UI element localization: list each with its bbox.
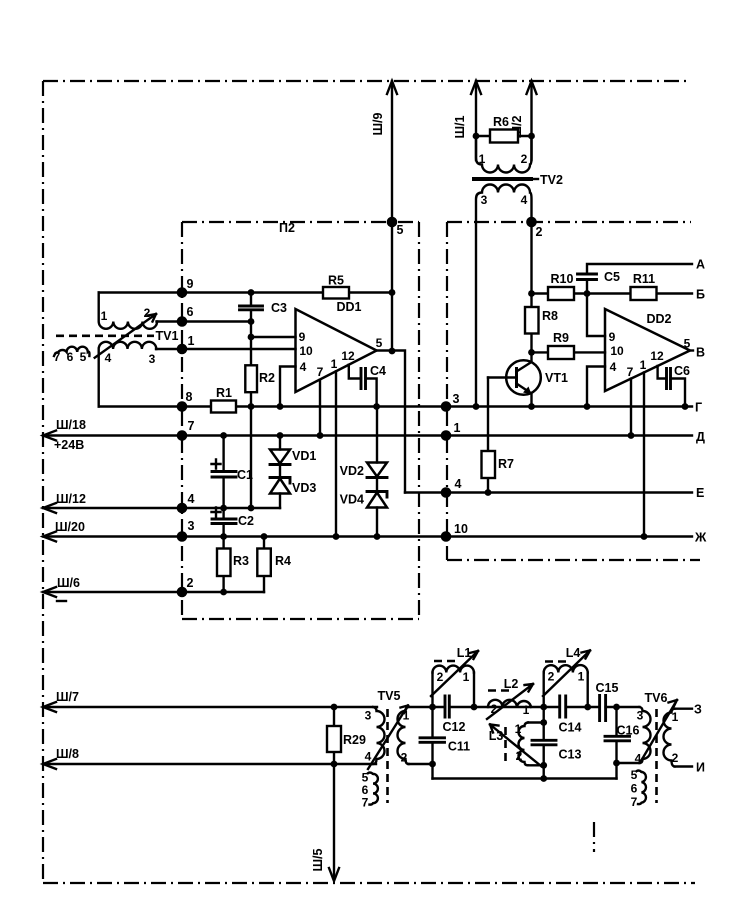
svg-text:Ш/18: Ш/18 xyxy=(56,418,86,432)
wire filter bottom rail xyxy=(433,777,617,779)
wire C6 to G row xyxy=(671,379,686,407)
transistor VT1 circle xyxy=(506,360,541,395)
resistor R4 column wire xyxy=(263,537,265,593)
svg-text:В: В xyxy=(696,346,705,360)
junction L4 left / C13 column / rail xyxy=(540,704,547,711)
outer border frame bottom xyxy=(43,882,695,884)
capacitor C11 plates xyxy=(420,738,445,743)
svg-text:DD2: DD2 xyxy=(646,312,671,326)
svg-text:7: 7 xyxy=(54,350,61,364)
junction L3 pin1 / C13 column xyxy=(540,719,547,726)
svg-text:12: 12 xyxy=(650,349,664,363)
svg-text:VT1: VT1 xyxy=(545,371,568,385)
wire Sh/1 vertical (TV2 pin1) xyxy=(475,81,477,160)
junction R29 top / Sh7 row xyxy=(331,704,338,711)
wire DD1 pin 1 to Zh row xyxy=(335,371,337,536)
junction R2 column / node4 row xyxy=(248,505,255,512)
svg-text:VD3: VD3 xyxy=(292,481,316,495)
svg-text:Ш/5: Ш/5 xyxy=(311,848,325,871)
diode VD4 triangle xyxy=(367,493,387,508)
svg-text:R2: R2 xyxy=(259,371,275,385)
wire rail C15 to TV6 xyxy=(606,706,640,708)
wire DD2 pin 9 xyxy=(587,294,605,337)
capacitor C4 plates xyxy=(361,369,366,389)
op-amp DD1 triangle xyxy=(296,309,377,392)
resistor R5 xyxy=(323,287,349,299)
inductor L3 top wire xyxy=(528,721,544,723)
svg-text:+24В: +24В xyxy=(54,438,84,452)
diode VD1 lead from +24V row xyxy=(279,436,281,450)
wire DD1 pin 9 xyxy=(251,336,296,338)
svg-text:5: 5 xyxy=(376,336,383,350)
capacitor C6 plates xyxy=(667,369,671,389)
svg-text:4: 4 xyxy=(610,360,617,374)
junction C6 / G row xyxy=(682,403,689,410)
junction R5 right / Sh9 xyxy=(389,289,396,296)
wire DD1 pin 12 to C4 xyxy=(349,365,361,379)
svg-text:Б: Б xyxy=(696,288,705,302)
junction L1 left / C11 / rail xyxy=(429,704,436,711)
capacitor C3 plates xyxy=(240,306,263,310)
capacitor C11 column wire xyxy=(431,707,433,779)
svg-text:2: 2 xyxy=(516,749,523,763)
junction C1 top / +24V row xyxy=(220,432,227,439)
connector arrow Sh/8 xyxy=(43,759,56,769)
resistor R29 column wires xyxy=(333,707,335,764)
wire DD2 pin 10 row with R9 xyxy=(532,351,606,353)
svg-text:Ш/12: Ш/12 xyxy=(56,492,86,506)
wire TV6 pin 1 to Z xyxy=(675,708,693,710)
junction C16 / TV6 pin4 xyxy=(613,760,620,767)
wire Sh/18 +24V row (node 7 / D net left part) xyxy=(43,434,692,436)
wire TV6 pin 2 to I xyxy=(675,765,693,767)
resistor R6 wires xyxy=(476,135,532,137)
C2 plus sign xyxy=(212,508,221,517)
pin node 6 on P2 border xyxy=(177,316,188,327)
connector arrow Sh/5 xyxy=(329,868,339,881)
svg-text:C14: C14 xyxy=(559,721,582,735)
svg-text:Ш/20: Ш/20 xyxy=(55,520,85,534)
transformer TV2 winding 1-2 xyxy=(476,136,532,173)
capacitor C1 plates xyxy=(212,472,236,478)
TV1 adjustment arrow xyxy=(95,314,156,358)
diode VD3 cathode bar with zener hook xyxy=(270,478,290,484)
C1 plus sign xyxy=(212,460,221,469)
svg-text:1: 1 xyxy=(640,358,647,372)
L1 adjustment arrow xyxy=(431,651,478,696)
svg-text:1: 1 xyxy=(672,710,679,724)
svg-text:5: 5 xyxy=(80,350,87,364)
svg-text:C6: C6 xyxy=(674,364,690,378)
junction node6 / C3 xyxy=(248,318,255,325)
svg-text:П2: П2 xyxy=(279,221,295,235)
junction DD1 pin1 / Zh row xyxy=(333,533,340,540)
junction C4 ground / VD2 top xyxy=(373,403,380,410)
svg-text:VD4: VD4 xyxy=(340,493,364,507)
TV5 adjustment arrow xyxy=(368,706,408,770)
diode VD2 lead from node 8 row xyxy=(376,407,378,463)
pin node 8 on P2 border xyxy=(177,401,188,412)
connector arrow Sh/20 xyxy=(43,532,56,542)
wire B net row R10 R11 xyxy=(532,292,693,294)
svg-text:9: 9 xyxy=(299,330,306,344)
svg-text:C5: C5 xyxy=(604,270,620,284)
svg-text:R5: R5 xyxy=(328,274,344,288)
junction R10 R11 C5 pin9 xyxy=(584,290,591,297)
svg-text:10: 10 xyxy=(610,344,624,358)
L3 dashed core xyxy=(504,727,507,764)
junction L4 right / C15 / rail xyxy=(584,704,591,711)
block P2 border right xyxy=(418,222,420,619)
wire DD2 pin 1 to Zh row xyxy=(643,372,645,536)
transformer TV5 winding 1-2 xyxy=(398,707,409,764)
junction TV2 pin3 / G row xyxy=(473,403,480,410)
transformer TV2 winding 3-4 xyxy=(476,185,532,407)
junction R3 bottom / node2 row xyxy=(220,589,227,596)
pin node 3 on P2 border xyxy=(177,531,188,542)
transistor VT1 base bar xyxy=(515,367,518,388)
resistor R3 xyxy=(217,549,231,577)
wire VD2 to VD4 xyxy=(376,478,378,492)
junction C13 column / bottom rail xyxy=(540,775,547,782)
svg-text:3: 3 xyxy=(188,519,195,533)
wire node 9 row xyxy=(99,291,392,293)
diode VD2 triangle xyxy=(367,463,387,477)
resistor R7 xyxy=(482,451,496,478)
junction DD2 pin4 / G row xyxy=(584,403,591,410)
wire C5 to junction xyxy=(586,280,588,294)
svg-text:А: А xyxy=(696,258,705,272)
svg-text:5: 5 xyxy=(397,223,404,237)
junction DD1 pin4 / node8 row xyxy=(277,403,284,410)
wire DD2 pin 7 to D row xyxy=(630,379,632,436)
svg-text:2: 2 xyxy=(672,751,679,765)
wire rail C14 to C15 xyxy=(566,706,600,708)
junction R6 left / Sh1 xyxy=(473,133,480,140)
wire DD1 pin 7 to +24V row xyxy=(319,380,321,436)
svg-text:5: 5 xyxy=(684,337,691,351)
L2 dashed core xyxy=(488,689,511,692)
wire DD1 output pin 5 xyxy=(377,351,405,493)
block P2 border bottom xyxy=(182,618,419,620)
L4 adjustment arrow xyxy=(543,651,590,697)
svg-text:9: 9 xyxy=(187,277,194,291)
outer border frame left xyxy=(42,81,44,883)
wire R2 bottom to node4 row xyxy=(250,392,252,508)
svg-text:R1: R1 xyxy=(216,386,232,400)
junction DD2 pin7 / D row xyxy=(628,432,635,439)
pin node 10 on right block border xyxy=(441,531,452,542)
transformer TV2 label with tick xyxy=(534,178,538,180)
svg-text:L3: L3 xyxy=(489,729,504,743)
capacitor C2 column wire xyxy=(222,508,224,537)
svg-text:R7: R7 xyxy=(498,457,514,471)
block P2 border left xyxy=(181,222,183,619)
svg-text:R4: R4 xyxy=(275,554,291,568)
resistor R6 xyxy=(490,130,518,143)
svg-text:3: 3 xyxy=(453,392,460,406)
right block border bottom xyxy=(447,559,700,561)
wire filter rail C12 to L4 junction xyxy=(449,706,559,708)
junction L3 pin2 / C13 column xyxy=(540,762,547,769)
svg-text:1: 1 xyxy=(101,309,108,323)
resistor R8 xyxy=(525,307,539,334)
svg-text:И: И xyxy=(696,761,705,775)
wire DD2 output to V xyxy=(690,349,693,351)
junction DD1 out / Sh9 xyxy=(389,348,396,355)
capacitor C16 plates xyxy=(605,736,630,741)
svg-text:2: 2 xyxy=(536,225,543,239)
svg-text:DD1: DD1 xyxy=(336,300,361,314)
svg-text:C3: C3 xyxy=(271,301,287,315)
transformer TV1 winding 3-4 xyxy=(99,342,157,407)
junction VT1 emitter / G row xyxy=(528,403,535,410)
svg-text:C4: C4 xyxy=(370,364,386,378)
svg-text:1: 1 xyxy=(188,334,195,348)
svg-text:R10: R10 xyxy=(551,272,574,286)
svg-text:Ш/7: Ш/7 xyxy=(56,690,79,704)
svg-text:C11: C11 xyxy=(448,740,470,754)
svg-text:Ш/1: Ш/1 xyxy=(453,115,467,138)
wire Sh/7 row xyxy=(43,706,377,708)
svg-text:7: 7 xyxy=(631,795,638,809)
resistor R10 xyxy=(548,287,574,300)
svg-text:7: 7 xyxy=(317,365,324,379)
right block border left xyxy=(446,222,448,560)
resistor R3 column wire xyxy=(222,537,224,593)
junction TV2 pin4 / R10 / R8 xyxy=(528,290,535,297)
svg-text:VD2: VD2 xyxy=(340,464,364,478)
wire C16 junction to TV6 pin 4 xyxy=(617,762,640,764)
svg-text:4: 4 xyxy=(455,477,462,491)
diode VD3 triangle xyxy=(270,479,290,494)
wire Sh/20 row (node 3 / Zh net left part) xyxy=(43,535,692,537)
svg-text:R9: R9 xyxy=(553,331,569,345)
junction DD1 pin9 / C3 column xyxy=(248,334,255,341)
inductor L1 right stub xyxy=(473,673,475,708)
svg-text:C12: C12 xyxy=(443,720,466,734)
junction DD1 pin7 / +24V row xyxy=(317,432,324,439)
transformer TV6 winding 3-4 xyxy=(640,707,651,763)
transformer TV1 winding 7-6-5 xyxy=(54,347,89,356)
capacitor C14 plates xyxy=(560,696,566,717)
svg-text:L4: L4 xyxy=(566,646,581,660)
wire DD2 pin 4 xyxy=(587,367,605,407)
svg-text:2: 2 xyxy=(491,702,498,716)
svg-text:C16: C16 xyxy=(617,724,640,738)
svg-text:3: 3 xyxy=(365,709,372,723)
transistor VT1 collector xyxy=(517,352,532,371)
junction R2 bottom / node8 row xyxy=(248,403,255,410)
stray fold mark dash-dot xyxy=(593,822,595,852)
transformer TV6 winding 5-6-7 xyxy=(637,771,646,805)
svg-text:1: 1 xyxy=(523,703,530,717)
svg-text:Ш/6: Ш/6 xyxy=(57,576,80,590)
resistor R11 xyxy=(631,287,657,300)
wire DD2 pin 12 to C6 xyxy=(658,366,667,379)
L2 adjustment arrow xyxy=(487,684,533,719)
svg-text:8: 8 xyxy=(186,390,193,404)
junction R8 R9 VT1 collector xyxy=(528,349,535,356)
svg-text:C2: C2 xyxy=(238,514,254,528)
junction VD4 bottom / Zh row xyxy=(374,533,381,540)
resistor R2 xyxy=(245,365,257,392)
svg-text:Ш/9: Ш/9 xyxy=(371,112,385,135)
wire node 6 row xyxy=(157,320,252,322)
svg-text:6: 6 xyxy=(187,305,194,319)
svg-text:TV6: TV6 xyxy=(645,691,668,705)
block P2 border top xyxy=(182,221,419,223)
TV6 core dashed xyxy=(655,709,658,803)
pin node 7 on P2 border xyxy=(177,430,188,441)
svg-text:1: 1 xyxy=(454,421,461,435)
svg-text:1: 1 xyxy=(578,670,585,684)
right block border top xyxy=(447,221,691,223)
svg-text:2: 2 xyxy=(401,751,408,765)
TV2 core bar xyxy=(472,177,533,181)
junction L1 right / C12 / rail xyxy=(471,704,478,711)
junction R4 top / node3 row xyxy=(261,533,268,540)
svg-text:2: 2 xyxy=(187,576,194,590)
svg-text:TV1: TV1 xyxy=(156,329,179,343)
pin node 1 on right block border xyxy=(441,430,452,441)
wire Sh/5 vertical xyxy=(333,764,335,879)
connector arrow Sh/2 xyxy=(527,81,537,94)
svg-text:10: 10 xyxy=(299,344,313,358)
svg-text:3: 3 xyxy=(149,352,156,366)
TV6 adjustment arrow xyxy=(641,700,677,761)
junction C3 top / R5 row xyxy=(248,289,255,296)
wire TV2 pin4 to R10/R8 junction xyxy=(530,222,532,294)
svg-text:10: 10 xyxy=(454,522,468,536)
svg-text:1: 1 xyxy=(479,152,486,166)
pin node 3 on right block border xyxy=(441,401,452,412)
pin node 2 on P2 border xyxy=(177,587,188,598)
outer border frame top xyxy=(43,80,691,82)
svg-text:4: 4 xyxy=(365,750,372,764)
svg-text:4: 4 xyxy=(521,193,528,207)
pin node 2 on right block border xyxy=(526,217,537,228)
connector arrow Sh/6 xyxy=(43,587,56,597)
capacitor C13 column wire xyxy=(543,707,545,779)
svg-text:6: 6 xyxy=(631,782,638,796)
svg-text:6: 6 xyxy=(67,350,74,364)
junction C15 right / C16 column xyxy=(613,704,620,711)
resistor R4 xyxy=(257,549,271,577)
wire node 1 row to DD1 pin 10 xyxy=(156,348,296,350)
capacitor C1 column wire xyxy=(222,436,224,509)
svg-text:5: 5 xyxy=(631,768,638,782)
wire Sh/12 row (node 4 net) xyxy=(43,507,280,509)
inductor L1 left stub xyxy=(431,673,433,708)
svg-text:VD1: VD1 xyxy=(292,449,316,463)
junction VD1 top / +24V row xyxy=(277,432,284,439)
pin node 9 on P2 border xyxy=(177,287,188,298)
wire TV5 pin1 to filter rail xyxy=(409,706,446,708)
wire TV5 pin2 to C11 junction xyxy=(409,763,433,765)
diode VD1 triangle xyxy=(270,450,290,464)
op-amp DD2 triangle xyxy=(605,309,690,391)
capacitor C16 column wire xyxy=(615,707,617,779)
connector arrow Sh/12 xyxy=(43,503,56,513)
transformer TV1 winding 1-2 xyxy=(99,293,157,329)
inductor L4 right stub xyxy=(587,673,589,708)
pin node 4 on P2 border xyxy=(177,503,188,514)
wire Sh/9 vertical (DD1 output net) xyxy=(391,81,393,351)
svg-text:R3: R3 xyxy=(233,554,249,568)
svg-text:2: 2 xyxy=(548,670,555,684)
svg-text:2: 2 xyxy=(437,670,444,684)
wire C4 to node 8 row xyxy=(366,379,377,407)
wire Sh/8 row xyxy=(43,763,376,765)
resistor R9 xyxy=(548,346,574,359)
svg-text:1: 1 xyxy=(331,357,338,371)
L3 adjustment arrow xyxy=(490,725,541,767)
transformer TV6 winding 1-2 xyxy=(664,709,675,767)
svg-text:Ш/8: Ш/8 xyxy=(56,747,79,761)
svg-text:C15: C15 xyxy=(596,681,619,695)
wire Sh/2 vertical (TV2 pin2) xyxy=(530,81,532,160)
svg-text:R8: R8 xyxy=(542,309,558,323)
diode VD2 cathode bar xyxy=(367,476,387,479)
capacitor C13 plates xyxy=(532,740,556,745)
svg-text:3: 3 xyxy=(637,709,644,723)
connector arrow Sh/18 xyxy=(43,431,56,441)
capacitor C15 plates xyxy=(600,696,606,721)
junction TV5 pin2 / C11 column xyxy=(429,761,436,768)
resistor R1 xyxy=(211,401,236,413)
label minus xyxy=(57,600,66,602)
svg-text:7: 7 xyxy=(627,365,634,379)
svg-text:7: 7 xyxy=(362,796,369,810)
inductor L3 winding xyxy=(519,723,529,766)
svg-text:12: 12 xyxy=(341,349,355,363)
svg-text:4: 4 xyxy=(105,351,112,365)
svg-text:R11: R11 xyxy=(633,272,655,286)
L1 dashed core xyxy=(434,660,460,663)
diode VD1 cathode bar xyxy=(270,463,290,466)
svg-text:C1: C1 xyxy=(237,468,253,482)
pin node 1 on P2 border xyxy=(177,344,188,355)
TV1 core dashed xyxy=(56,334,154,337)
svg-text:1: 1 xyxy=(515,722,522,736)
diode VD4 cathode bar with zener hook xyxy=(367,492,387,498)
TV5 core dashed xyxy=(386,709,389,803)
junction R29 bottom / Sh8 / Sh5 xyxy=(331,761,338,768)
capacitor C12 plates xyxy=(445,696,449,717)
svg-text:1: 1 xyxy=(463,670,470,684)
inductor L4 left stub xyxy=(543,673,545,708)
junction C1-C2 / node4 row xyxy=(220,505,227,512)
transformer TV5 winding 5-6-7 xyxy=(368,773,378,805)
svg-text:R6: R6 xyxy=(493,115,509,129)
wire VD1 to VD3 xyxy=(279,465,281,478)
svg-text:Г: Г xyxy=(695,401,702,415)
wire VD3 to node 4 row xyxy=(279,494,281,509)
svg-text:4: 4 xyxy=(300,360,307,374)
resistor R29 xyxy=(327,726,341,752)
inductor L4 winding xyxy=(544,665,588,672)
connector arrow Sh/7 xyxy=(43,702,56,712)
junction R7 bottom / E row xyxy=(485,489,492,496)
svg-text:TV2: TV2 xyxy=(540,173,563,187)
svg-text:3: 3 xyxy=(481,193,488,207)
transistor VT1 emitter with arrow xyxy=(517,384,532,407)
svg-text:Ж: Ж xyxy=(694,531,707,545)
connector arrow Sh/1 xyxy=(471,81,481,94)
pin node 4 on right block border xyxy=(441,487,452,498)
capacitor C5 plates xyxy=(578,274,597,280)
